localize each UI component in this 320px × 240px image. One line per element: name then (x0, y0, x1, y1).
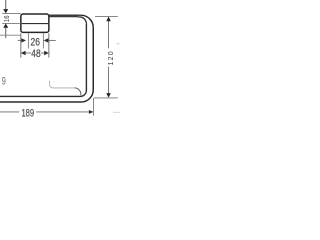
ring bottom bar outer line (0, 101, 81, 103)
ring bottom-right corner outer (81, 90, 93, 102)
ring top bar outer line (49, 14, 78, 17)
svg-text:16: 16 (4, 15, 12, 22)
ring right side inner (85, 24, 87, 91)
dim 189: faint overshoot right (113, 111, 120, 113)
svg-text:120: 120 (108, 50, 115, 65)
svg-text:189: 189 (21, 107, 34, 118)
dim 16: up arrow (3, 24, 8, 28)
dim 26: left arrow (21, 38, 26, 42)
dim 26: left stub (18, 39, 22, 41)
small tick near right edge (117, 43, 120, 45)
wall plate side-view rounded rect (21, 14, 49, 32)
dim 48: right arrow (44, 51, 49, 55)
ring bottom bar inner line (0, 95, 81, 97)
ring top-right corner inner (80, 17, 87, 24)
dim 48: right line segment (41, 52, 45, 54)
ring right side outer (92, 28, 94, 90)
svg-text:9: 9 (2, 75, 6, 86)
dim 189: line left segment (0, 111, 19, 113)
inner hidden back edge of ring band (50, 81, 75, 88)
dim 120: down arrow (106, 93, 111, 98)
dim 120: upper line (108, 21, 110, 48)
dim 26: right arrow (44, 38, 49, 42)
ring top bar inner line (78, 16, 80, 18)
svg-text:48: 48 (31, 48, 40, 60)
dim 48: left line segment (25, 52, 31, 54)
dim block: plate left extension line (20, 33, 22, 57)
plate interior split line (22, 23, 48, 25)
dim 16: upper stem (5, 0, 7, 9)
dim 120: lower line (108, 67, 110, 94)
dim 16: bottom extension line (2, 23, 21, 25)
dim 120: bottom extension line (94, 97, 118, 99)
dim 16: top extension line (2, 12, 21, 14)
left reference line at y 35.2 (0, 34, 21, 36)
dim 26: right stub (48, 39, 56, 41)
dim 189: right extension line (93, 98, 95, 116)
dim 16: lower stem (5, 28, 7, 38)
ring bottom-right corner inner (80, 90, 86, 96)
dim 120: top extension line (95, 15, 118, 17)
dim 120: up arrow (106, 17, 111, 22)
dim 48: left arrow (21, 51, 26, 55)
dim block: 26 left extension line (27, 33, 29, 48)
dim 16: down arrow (3, 9, 8, 13)
dim 189: line right segment (36, 111, 89, 113)
ring top-right corner outer (81, 15, 93, 27)
dim block: 26 right extension line (42, 33, 44, 48)
dim block: plate right extension line (48, 33, 50, 57)
dim 189: right arrow (89, 110, 94, 114)
